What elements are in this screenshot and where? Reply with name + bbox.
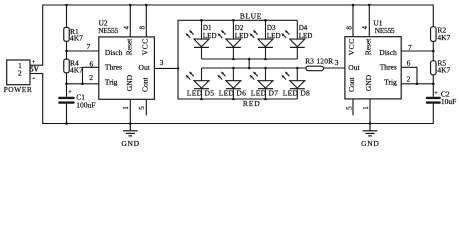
svg-text:+: + (434, 91, 438, 97)
resistor R5 4K7 (431, 58, 451, 75)
timer U1 NE555 box (345, 18, 401, 99)
svg-text:NE555: NE555 (98, 26, 118, 35)
node: U1 pin4 on +5V rail (368, 4, 371, 7)
LED D4 (blue row) (281, 20, 304, 59)
node: jumper bottom on wire B (248, 67, 251, 70)
wire: right rail top segment (+5V to R2) (432, 5, 434, 27)
svg-text:LED D7: LED D7 (251, 88, 278, 97)
ground symbol right (U1) (363, 124, 378, 136)
wire: U2 pin 3 Out to LED node L (154, 67, 178, 69)
svg-text:BLUE: BLUE (240, 11, 262, 20)
wire: R3 to U1 pin 3 Out (324, 67, 345, 69)
node: D1 anode (200, 19, 203, 22)
svg-text:3: 3 (160, 58, 164, 67)
node: jumper top on wire A (248, 58, 251, 61)
wire: blue anode bus (node L top) (178, 19, 298, 21)
svg-text:6: 6 (407, 58, 411, 67)
svg-text:LED: LED (235, 32, 249, 40)
resistor R2 4K7 (431, 25, 451, 42)
svg-text:LED D5: LED D5 (187, 88, 214, 97)
LED D8 (red row) (281, 68, 304, 99)
svg-text:2: 2 (407, 75, 411, 84)
node: U2 out tee on node L (177, 67, 180, 70)
wire: U2 pin 6 Thres horizontal (83, 66, 99, 68)
svg-text:8: 8 (139, 25, 146, 29)
node: D2 cathode on wire A (232, 58, 235, 61)
svg-text:4K7: 4K7 (70, 66, 83, 75)
svg-text:POWER: POWER (4, 85, 33, 94)
wire: GND bottom rail (43, 123, 434, 125)
node: U2 pin1/ground on bottom rail (129, 122, 132, 125)
wire: U1 pin 7 Disch to R2/R5 junction (401, 50, 433, 52)
svg-text:Trig: Trig (105, 78, 118, 87)
svg-text:4K7: 4K7 (437, 33, 450, 42)
svg-text:4K7: 4K7 (70, 34, 83, 43)
svg-text:3: 3 (335, 58, 339, 67)
svg-text:4: 4 (362, 25, 369, 29)
node: U2 pin8 on +5V rail (145, 4, 148, 7)
svg-text:100uF: 100uF (76, 100, 95, 109)
resistor R4 4K7 (64, 59, 83, 75)
node: D7 anode on wire B (264, 67, 267, 70)
wire: jumper between blue cathode and red anode buses (248, 59, 250, 68)
wire: POWER pin 1 to rail (30, 64, 43, 66)
svg-text:Disch: Disch (105, 48, 123, 57)
wire: U1 pin 1 GND to bottom rail (369, 99, 371, 124)
ground symbol left (U2) (123, 124, 138, 136)
svg-text:7: 7 (408, 43, 412, 52)
svg-text:Trig: Trig (384, 78, 397, 87)
svg-text:4: 4 (123, 25, 130, 29)
node: R1 top on +5V rail (65, 4, 68, 7)
wire: node L vertical (177, 20, 179, 99)
wire: blue cathode bus (wire A) (202, 58, 298, 60)
svg-text:+: + (68, 90, 72, 96)
node: R1/R4/U2 pin7 junction (65, 50, 68, 53)
wire: U2 pin 7 Disch to R1/R4 junction (67, 50, 99, 52)
wire: U1 pin 8 VCC to +5V rail (352, 5, 354, 37)
node: D3 cathode on wire A (264, 58, 267, 61)
svg-text:6: 6 (89, 60, 93, 69)
svg-text:GND: GND (361, 139, 379, 148)
capacitor C1 100uF polarized (58, 90, 95, 109)
LED D3 (blue row) (250, 20, 273, 59)
svg-text:5: 5 (346, 106, 353, 110)
LED D1 (blue row) (186, 20, 209, 59)
node: U1 pin8 on +5V rail (352, 4, 355, 7)
node: D2 anode (232, 19, 235, 22)
svg-text:10uF: 10uF (441, 97, 456, 106)
wire: U2 pin 2 Trig to R4/C1 junction (67, 83, 99, 85)
wire: left rail upper segment (+5V to POWER pin 1) (42, 5, 44, 66)
wire: +5V top rail (43, 4, 434, 6)
wire: U2 pin 6 vertical drop to pin 2 net (82, 67, 84, 84)
node: U1 pin1/ground on bottom rail (369, 122, 372, 125)
node: D7 cathode on wire C (264, 98, 267, 101)
svg-text:LED: LED (267, 32, 281, 40)
net label +5V (30, 60, 38, 78)
svg-text:Reset: Reset (364, 38, 373, 56)
svg-text:VCC: VCC (141, 38, 150, 55)
wire: U1 pin 6 Thres horizontal (401, 66, 417, 68)
wire: U2 pin 5 Cont stub (145, 99, 147, 115)
svg-text:LED D8: LED D8 (283, 88, 310, 97)
svg-text:R3: R3 (305, 56, 314, 65)
wire: C1 to GND rail (66, 104, 68, 124)
svg-text:1: 1 (363, 106, 370, 109)
svg-text:Thres: Thres (380, 62, 397, 71)
resistor R3 120R (305, 56, 333, 70)
node: R2/R5/U1 pin7 junction (432, 50, 435, 53)
svg-text:5: 5 (139, 106, 146, 110)
node: D6 anode on wire B (232, 67, 235, 70)
LED D7 (red row) (250, 68, 273, 99)
wire: red cathode bus (node L bottom) (178, 98, 298, 100)
svg-text:2: 2 (89, 73, 93, 82)
node: D8 anode on wire B (296, 67, 299, 70)
svg-text:Thres: Thres (105, 62, 122, 71)
svg-text:120R: 120R (316, 56, 333, 65)
node: U2 pin6/pin2 junction (81, 83, 84, 86)
timer U2 NE555 box (98, 18, 154, 99)
wire: U1 pin 2 Trig to R5/C2 junction (401, 83, 433, 85)
LED D6 (red row) (218, 68, 241, 99)
svg-text:NE555: NE555 (375, 26, 395, 35)
node: D5 cathode on wire C (200, 98, 203, 101)
wire: C2 to GND rail (432, 104, 434, 124)
wire: U1 pin 5 Cont stub (352, 99, 354, 116)
wire: U2 pin 4 Reset to +5V rail (129, 5, 131, 37)
svg-text:Cont: Cont (347, 76, 356, 92)
wire: R1 bottom to R4 top with U2 pin7 tap (66, 41, 68, 59)
svg-text:D2: D2 (235, 24, 244, 32)
wire: U1 pin 6 vertical drop to pin 2 net (416, 67, 418, 84)
svg-text:LED D6: LED D6 (219, 88, 246, 97)
node: U2 pin4 on +5V rail (129, 4, 132, 7)
node: D3 anode (264, 19, 267, 22)
svg-text:GND: GND (125, 74, 134, 91)
svg-text:RED: RED (243, 99, 261, 108)
svg-text:Cont: Cont (141, 76, 150, 92)
node: R5/C2/U1 pin2 junction (432, 83, 435, 86)
svg-text:GND: GND (364, 74, 373, 91)
svg-text:D4: D4 (299, 24, 308, 32)
svg-text:4K7: 4K7 (437, 66, 450, 75)
svg-text:GND: GND (121, 139, 139, 148)
wire: R4 bottom to C1 with U2 pin2 tap (66, 73, 68, 97)
wire: red anode bus (wire B) to R3 (202, 67, 307, 69)
wire: POWER pin 2 to rail (30, 73, 43, 75)
resistor R1 4K7 (64, 27, 83, 43)
svg-text:Out: Out (139, 63, 151, 72)
node: C1 on bottom rail (65, 122, 68, 125)
LED D2 (blue row) (218, 20, 241, 59)
svg-text:1: 1 (123, 106, 130, 109)
capacitor C2 10uF polarized (426, 90, 457, 106)
svg-text:VCC: VCC (347, 38, 356, 55)
wire: U2 pin 1 GND to bottom rail (129, 99, 131, 123)
node: R4/C1/U2 pin2 junction (65, 83, 68, 86)
wire: left rail lower segment (POWER pin 2 to GND rail) (42, 74, 44, 125)
svg-text:LED: LED (299, 32, 313, 40)
svg-text:5V: 5V (30, 67, 38, 74)
wire: R2 to R5 segment with U1 pin7 tap (432, 41, 434, 60)
svg-text:Out: Out (348, 63, 360, 72)
connector J1 POWER (4, 60, 33, 94)
wire: U1 pin 4 Reset to +5V rail (368, 5, 370, 37)
svg-text:Reset: Reset (124, 38, 133, 56)
svg-text:D1: D1 (203, 24, 212, 32)
wire: U2 pin 8 VCC to +5V rail (145, 5, 147, 37)
svg-text:LED: LED (203, 32, 217, 40)
svg-text:8: 8 (347, 25, 354, 29)
wire: R5 to C2 segment with U1 pin2 tap (432, 75, 434, 97)
node: U1 pin6/pin2 junction (416, 83, 419, 86)
LED D5 (red row) (186, 68, 209, 99)
svg-text:2: 2 (18, 69, 22, 78)
wire: R1 top lead from +5V rail (66, 5, 68, 27)
svg-text:Disch: Disch (379, 48, 397, 57)
node: D6 cathode on wire C (232, 98, 235, 101)
svg-text:7: 7 (86, 42, 90, 51)
svg-text:D3: D3 (267, 24, 276, 32)
